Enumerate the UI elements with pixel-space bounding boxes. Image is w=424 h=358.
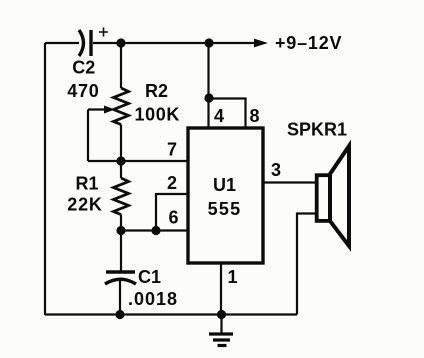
- node junction dot top rail / C2-R2: [116, 38, 125, 47]
- node junction dot R1 bottom / pins 2-6: [116, 226, 125, 235]
- wire R2 bottom lead: [120, 125, 122, 162]
- wire pin1 vertical: [220, 263, 222, 315]
- svg-text:470: 470: [67, 81, 99, 101]
- speaker SPKR1 driver box: [317, 175, 330, 221]
- svg-text:3: 3: [271, 160, 281, 180]
- svg-text:1: 1: [227, 267, 237, 287]
- capacitor C1 straight plate: [106, 270, 135, 273]
- node junction dot top rail / pin4-8: [204, 38, 213, 47]
- wire C1 top lead: [120, 231, 122, 273]
- node junction dot pin4/pin8: [204, 93, 213, 102]
- C2 polarity plus sign: [99, 28, 108, 37]
- svg-text:C2: C2: [72, 58, 95, 78]
- node junction dot ground: [217, 310, 226, 319]
- op-amp U1 555 IC body: [188, 128, 263, 263]
- wire pin6 horizontal: [121, 229, 188, 231]
- capacitor C2 curved plate: [79, 30, 84, 56]
- wire C1 bottom lead: [119, 281, 121, 315]
- capacitor C1 curved plate: [105, 279, 136, 284]
- R2 wiper arrow wire: [88, 110, 104, 162]
- wire pin7 horizontal: [88, 160, 188, 162]
- wire bottom rail: [45, 313, 297, 315]
- wire left rail vertical: [44, 43, 46, 315]
- wire pin4 vertical from rail: [207, 43, 209, 128]
- svg-text:6: 6: [168, 208, 178, 228]
- ground bar 1: [209, 332, 233, 335]
- wire speaker return: [297, 214, 316, 315]
- node junction dot R2 bottom / pin7: [116, 156, 125, 165]
- svg-text:555: 555: [208, 199, 242, 219]
- wire R1 bottom lead: [120, 215, 122, 232]
- capacitor C2 straight plate: [89, 30, 92, 56]
- svg-text:7: 7: [167, 140, 177, 160]
- svg-text:2: 2: [167, 173, 177, 193]
- wire pin3 horizontal: [263, 181, 316, 183]
- speaker SPKR1 cone: [330, 146, 349, 246]
- svg-text:.0018: .0018: [128, 289, 178, 309]
- wire top rail right segment: [93, 42, 254, 44]
- R2 wiper arrowhead: [104, 106, 115, 114]
- wire top rail left segment: [45, 42, 79, 44]
- wire R2 top lead: [120, 43, 122, 88]
- wire pin8 loop: [209, 99, 246, 129]
- svg-text:R1: R1: [76, 174, 99, 194]
- resistor R2 zigzag: [114, 88, 129, 125]
- svg-text:SPKR1: SPKR1: [287, 120, 347, 140]
- wire pin2 loop: [156, 194, 188, 231]
- supply arrowhead: [254, 39, 268, 48]
- svg-text:100K: 100K: [135, 105, 180, 125]
- node junction dot pin2/pin6: [151, 226, 160, 235]
- ground stub: [220, 315, 222, 334]
- wire R1 top lead: [120, 161, 122, 178]
- svg-text:R2: R2: [145, 81, 168, 101]
- resistor R1 zigzag: [114, 178, 129, 215]
- svg-text:U1: U1: [213, 175, 236, 195]
- svg-text:8: 8: [249, 106, 259, 126]
- svg-text:+9–12V: +9–12V: [275, 33, 342, 53]
- svg-text:22K: 22K: [67, 195, 102, 215]
- svg-text:C1: C1: [138, 267, 161, 287]
- ground bar 2: [213, 338, 230, 341]
- node junction dot C1 bottom rail: [115, 310, 124, 319]
- svg-text:4: 4: [214, 106, 224, 126]
- ground bar 3: [218, 344, 227, 347]
